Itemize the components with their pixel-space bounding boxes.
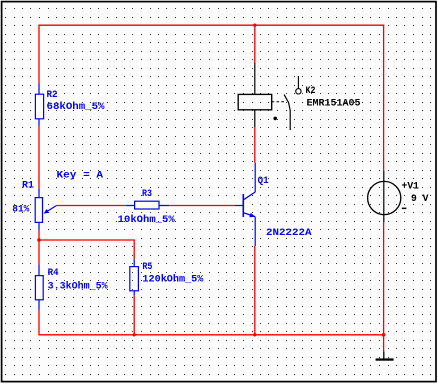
source V1 9V <box>368 171 407 223</box>
node top junction <box>253 24 256 27</box>
label R4 <box>48 268 59 279</box>
svg-text:2N2222A: 2N2222A <box>266 228 312 239</box>
resistor R5 120kOhm_5% <box>130 259 139 296</box>
resistor R2 68kOhm_5% <box>35 84 43 127</box>
label R2 value 68kOhm_5% <box>47 101 105 113</box>
label R1 <box>22 180 34 191</box>
svg-text:R3: R3 <box>142 189 152 200</box>
wire junction down to R4 <box>38 240 40 264</box>
ground <box>376 351 394 360</box>
wire R3 to Q1 base <box>169 205 235 207</box>
label V1 positive terminal <box>402 181 420 192</box>
svg-text:Q1: Q1 <box>258 176 269 187</box>
wire R5 bottom to ground net <box>133 296 135 335</box>
wire junction to ground symbol <box>383 335 385 352</box>
label R2 <box>47 90 58 101</box>
wire Q1 emitter to ground net <box>254 246 256 335</box>
svg-text:R2: R2 <box>47 90 58 101</box>
wire R1 bottom to junction <box>38 230 40 240</box>
potentiometer R1 <box>35 189 56 230</box>
label R1 percent 81% <box>12 205 29 216</box>
svg-text:3.3kOhm_5%: 3.3kOhm_5% <box>48 280 108 292</box>
wire R4 bottom to ground net <box>38 310 40 335</box>
resistor R3 10kOhm_5% <box>126 201 169 209</box>
label K2 value EMR151A05 <box>307 98 361 109</box>
transistor Q1 2N2222A <box>235 163 255 246</box>
svg-text:81%: 81% <box>12 205 29 216</box>
svg-text:68kOhm_5%: 68kOhm_5% <box>47 101 105 113</box>
label V1 value 9 V <box>411 194 429 205</box>
label R3 value 10kOhm_5% <box>118 214 175 226</box>
svg-text:R5: R5 <box>142 262 152 273</box>
node junction R1/R4/R5 <box>37 238 41 242</box>
svg-text:+V1: +V1 <box>402 181 420 192</box>
svg-text:K2: K2 <box>306 86 316 97</box>
relay K2 EMR151A05 <box>238 63 301 130</box>
label R4 value 3.3kOhm_5% <box>48 280 108 292</box>
svg-text:10kOhm_5%: 10kOhm_5% <box>118 214 175 226</box>
label Q1 value 2N2222A <box>266 228 312 239</box>
svg-text:EMR151A05: EMR151A05 <box>307 98 361 109</box>
wire R2 to R1 <box>38 126 40 189</box>
node V1/ground junction <box>382 333 386 337</box>
node emitter/ground net junction <box>253 333 256 336</box>
wire top net V1+ to R2/relay <box>38 24 384 26</box>
svg-text:9 V: 9 V <box>411 194 429 205</box>
label Q1 <box>258 176 269 187</box>
node R5/ground net junction <box>133 333 136 336</box>
resistor R4 3.3kOhm_5% <box>35 264 43 310</box>
label R5 <box>142 262 152 273</box>
svg-text:120kOhm_5%: 120kOhm_5% <box>142 273 203 285</box>
wire relay coil to Q1 collector <box>254 127 256 162</box>
label K2 <box>306 86 316 97</box>
label R3 <box>142 189 152 200</box>
wire V1 to ground net <box>383 223 385 335</box>
wire bottom ground net <box>38 334 384 336</box>
svg-text:R1: R1 <box>22 180 34 191</box>
wire top junction down to relay coil <box>254 25 256 62</box>
label R5 value 120kOhm_5% <box>142 273 203 285</box>
svg-text:R4: R4 <box>48 268 59 279</box>
wire junction to R5 top <box>38 240 134 259</box>
svg-text:Key = A: Key = A <box>57 170 104 181</box>
wire right vertical top to V1 <box>383 25 385 171</box>
label R1 key <box>57 170 104 181</box>
wire left vertical from top to R2 <box>38 25 40 83</box>
wire wiper to R3 <box>57 205 127 207</box>
